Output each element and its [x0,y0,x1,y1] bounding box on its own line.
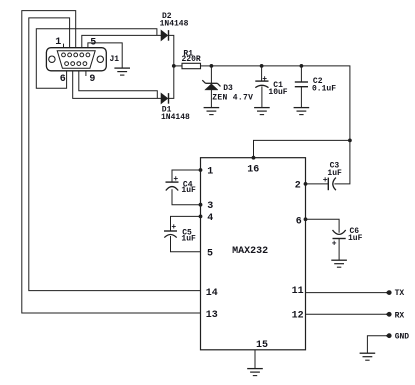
svg-text:D3: D3 [223,84,233,93]
terminal GND [386,333,392,338]
svg-text:13: 13 [206,310,218,321]
svg-text:1uF: 1uF [181,186,196,195]
ground at C1 [254,108,270,115]
C6 plus sign [332,239,337,248]
D2 value 1N4148 [160,20,189,29]
svg-text:14: 14 [206,288,218,299]
wire C2 to ground [300,87,302,108]
ground at U1 pin15 [247,369,263,376]
wire VCC to C2 [300,66,302,82]
terminal RX [386,312,392,317]
J1 refdes [110,55,120,64]
J1 pin 1 stub [63,44,65,48]
C5 plus sign [171,223,176,232]
J1 label pin 5 [90,37,96,48]
svg-text:6: 6 [60,74,66,85]
capacitor C6 plates [333,230,346,239]
label GND [395,333,410,342]
svg-text:1N4148: 1N4148 [161,113,190,122]
U1 pin 14 number [206,288,218,299]
svg-text:ZEN 4.7V: ZEN 4.7V [212,94,253,103]
wire J1 pin5 to ground [88,43,122,68]
wire J1 pin6 to D2 anode [36,29,157,88]
svg-text:1N4148: 1N4148 [160,20,189,29]
U1 pin 2 number [295,181,301,192]
svg-text:12: 12 [292,311,304,322]
svg-text:11: 11 [292,286,304,297]
wire C6 to ground [338,239,340,261]
U1 pin 6 number [296,216,302,227]
C2 refdes [313,77,323,86]
U1 pin 3 number [207,201,213,212]
C4 refdes [183,180,193,189]
wire U1 pin15 to ground [254,350,256,369]
svg-text:15: 15 [256,340,268,351]
J1 label pin 9 [89,74,95,85]
U1 pin 12 number [292,311,304,322]
C3 refdes [330,162,340,171]
capacitor C3 plates [328,178,336,191]
svg-text:0.1uF: 0.1uF [312,85,336,94]
C3 value 1uF [327,169,342,178]
C1 refdes [273,81,283,90]
svg-text:+: + [173,175,178,184]
svg-text:4: 4 [207,213,213,224]
C4 value 1uF [181,186,196,195]
ground at C6 [331,260,347,267]
svg-text:10uF: 10uF [268,88,287,97]
svg-text:+: + [171,223,176,232]
svg-text:6: 6 [296,216,302,227]
svg-text:2: 2 [295,181,301,192]
wire J1 pin8 to D1 anode [79,71,158,99]
R1 value 220R [182,55,201,64]
U1 pin 4 number [207,213,213,224]
D1 refdes [162,106,172,115]
wire J1 pin4 to D2 anode [82,35,161,47]
junction U1 pin6 [304,217,308,221]
U1 label MAX232 [232,246,268,257]
C6 refdes [350,227,360,236]
wire U1 pin1 to C4 [172,170,201,182]
C5 refdes [182,229,192,238]
junction U1 pin1 [199,168,203,172]
C5 value 1uF [181,234,196,243]
wire R1 to node VCC [201,65,212,67]
diode D1 [161,93,169,104]
U1 pin 11 number [292,286,304,297]
U1 pin 5 number [207,248,213,259]
terminal TX [386,290,392,295]
J1 pin 9 stub [85,71,87,76]
capacitor C5 plates [164,231,177,238]
wire U1 pin2 to C3 [306,183,329,185]
wire U1 pin6 to C6 [306,219,340,233]
D2 refdes [162,12,172,21]
D3 refdes [223,84,233,93]
wire C3 to VCC node [334,140,350,184]
U1 pin 13 number [206,310,218,321]
C6 value 1uF [348,234,363,243]
junction at C2 [300,64,304,68]
junction node VIN [172,64,176,68]
ground at GND terminal [360,353,376,360]
wire VCC to C1 [261,66,263,81]
C1 value 10uF [268,88,287,97]
svg-text:MAX232: MAX232 [232,246,268,257]
connector J1 (DB9) body [46,48,106,71]
wire GND terminal [367,336,386,354]
D3 value ZEN 4.7V [212,94,253,103]
C4 plus sign [173,175,178,184]
svg-text:1uF: 1uF [348,234,363,243]
U1 pin 1 number [207,167,213,178]
U1 pin 16 number [247,165,259,176]
svg-text:1uF: 1uF [327,169,342,178]
op-amp U1 MAX232 body [201,158,306,350]
wire VIN to R1 [174,65,182,67]
wire U1 pin16 to VCC node [254,140,350,157]
zener diode D3 [202,80,220,90]
svg-text:1uF: 1uF [181,234,196,243]
svg-text:1: 1 [55,37,61,48]
svg-text:+: + [332,239,337,248]
wire D3 to ground [210,90,212,108]
label TX [395,289,405,298]
wire D1 cathode to node VIN [169,66,174,99]
U1 pin 15 number [256,340,268,351]
C3 plus sign [323,176,328,185]
wire U1 pin11 to TX [306,292,387,294]
wire U1 pin4 to C5 [171,216,201,231]
svg-text:1: 1 [207,167,213,178]
wire VCC to D3 [210,66,212,83]
svg-text:TX: TX [395,289,405,298]
svg-text:3: 3 [207,201,213,212]
capacitor C4 plates [166,182,179,190]
ground at C2 [294,108,310,115]
svg-text:5: 5 [207,248,213,259]
C1 plus sign [262,75,267,84]
svg-text:J1: J1 [110,55,120,64]
wire C5 to U1 pin5 [171,236,201,252]
junction at C1 [260,64,264,68]
wire J1 pin7 to D1 anode [73,71,161,99]
junction U1 pin3 [199,203,203,207]
wire C4 to U1 pin3 [172,189,201,205]
svg-text:GND: GND [395,333,410,342]
wire VCC rail [211,66,350,140]
junction U1 pin16 [252,156,256,160]
junction at D3 [210,64,214,68]
wire U1 pin12 to RX [306,313,387,315]
junction at pin16 feed [348,139,352,143]
wire J1 pin3 to U1 pin13 [22,11,201,313]
C2 value 0.1uF [312,85,336,94]
resistor R1 [182,63,201,68]
R1 refdes [183,49,193,58]
wire J1 pin2 to U1 pin14 [29,18,201,291]
J1 label pin 6 [60,74,66,85]
ground at J1 pin5 [114,68,130,75]
svg-text:RX: RX [395,311,405,320]
wire D2 cathode to node VIN [169,35,174,66]
wire C1 to ground [261,86,263,107]
ground at D3 [204,108,220,115]
svg-text:9: 9 [89,74,95,85]
label RX [395,311,405,320]
svg-text:220R: 220R [182,55,201,64]
capacitor C1 plates [255,81,268,88]
diode D2 [161,30,169,41]
J1 label pin 1 [55,37,61,48]
capacitor C2 plates [295,82,308,87]
svg-text:+: + [262,75,267,84]
junction U1 pin2 [304,182,308,186]
svg-text:16: 16 [247,165,259,176]
junction U1 pin4 [199,215,203,219]
D1 value 1N4148 [161,113,190,122]
